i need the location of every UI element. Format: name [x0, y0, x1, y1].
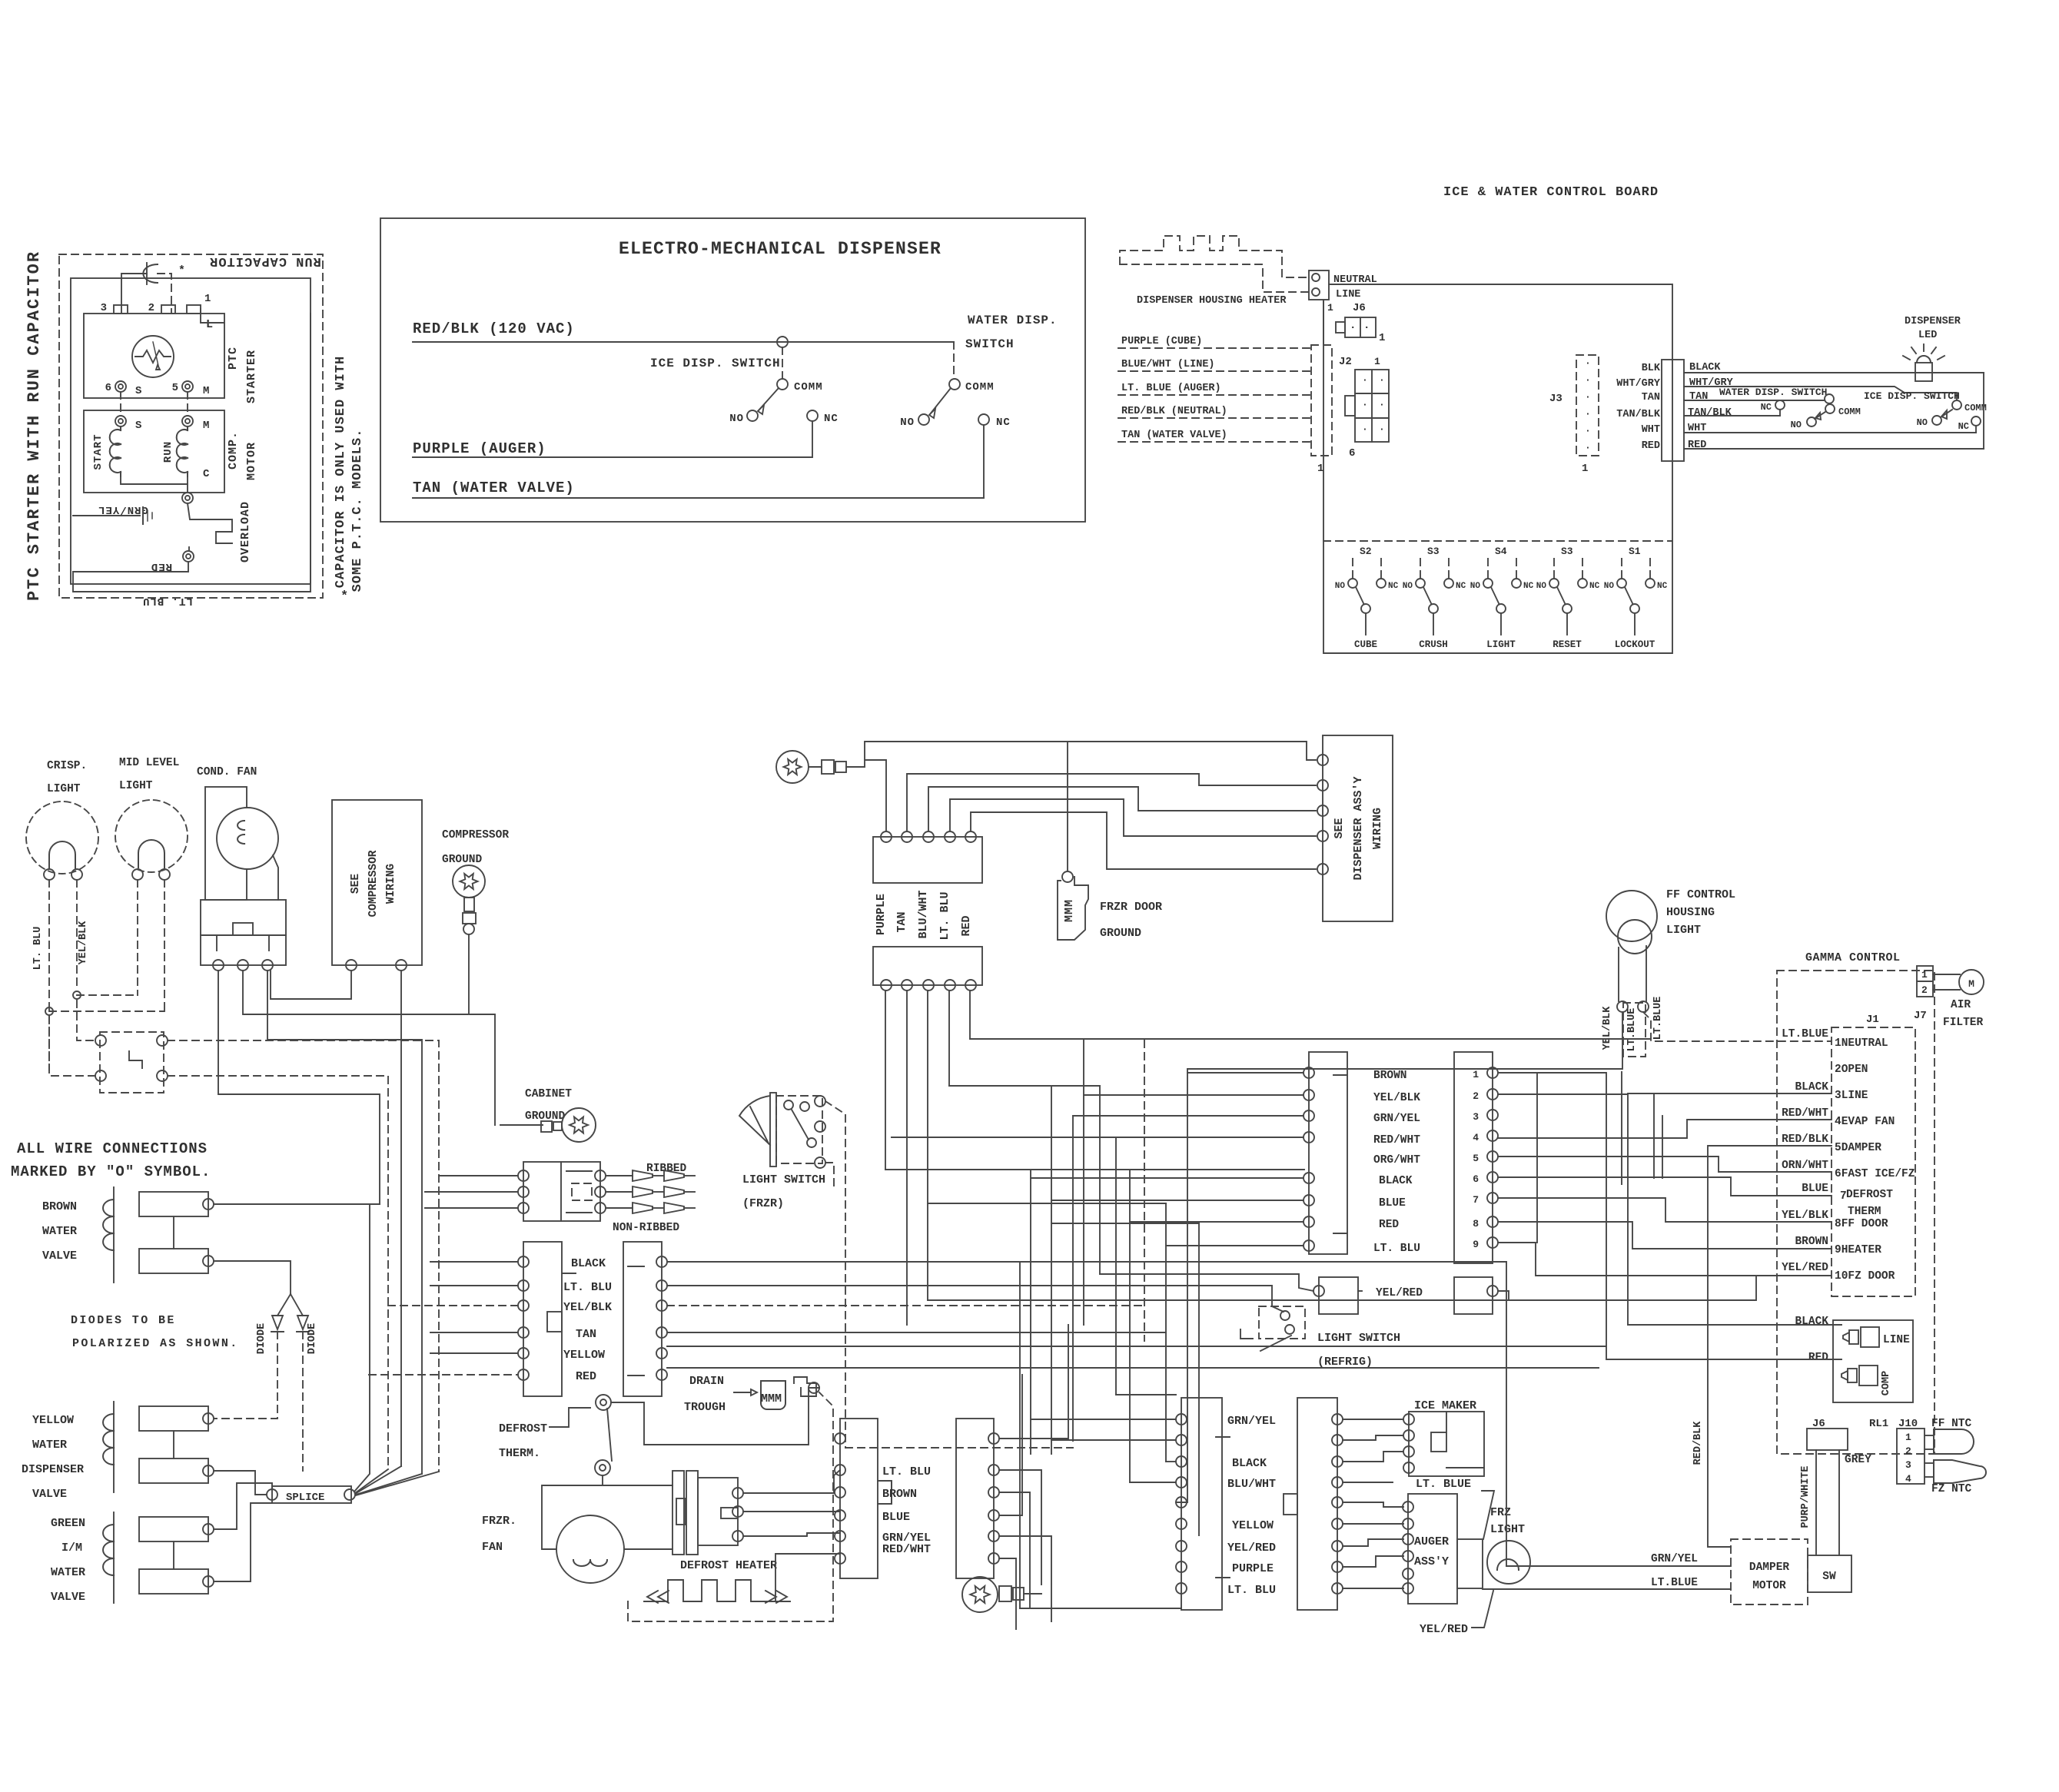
svg-text:HOUSING: HOUSING [1666, 906, 1715, 919]
svg-text:S: S [135, 385, 142, 397]
svg-text:WATER: WATER [32, 1439, 67, 1452]
wire splice fan 4 [356, 1474, 422, 1495]
6-wire connector pair (left) [523, 1242, 562, 1396]
svg-text:RL1: RL1 [1869, 1418, 1888, 1430]
wire BLACK row [667, 1261, 1506, 1263]
wire trunk vertical x1410 [1083, 1039, 1084, 1325]
svg-text:RED/BLK: RED/BLK [1782, 1133, 1828, 1146]
relay wire t3 [267, 971, 422, 1474]
svg-text:DIODE: DIODE [307, 1323, 318, 1355]
wire trunk vertical x1341 [1030, 1170, 1031, 1454]
svg-text:RED: RED [960, 915, 973, 936]
cond fan right wire [273, 855, 278, 900]
wire to ice maker pin 4 (LT. BLUE) [1343, 1482, 1393, 1483]
svg-text:BROWN: BROWN [882, 1488, 917, 1501]
wire black line row [1628, 1324, 1841, 1326]
svg-text:S3: S3 [1561, 546, 1573, 557]
wire YEL/BLK into left 6-pin connector (dashed) [388, 1305, 518, 1306]
YEL/RED connector row [1319, 1277, 1358, 1314]
SEE COMPRESSOR WIRING box [332, 800, 422, 965]
wire BLUE to 7DEFROST THERM [1498, 1177, 1832, 1196]
see-comp wire t2 [400, 971, 402, 1466]
svg-text:J7: J7 [1914, 1010, 1927, 1022]
SPLICE box [272, 1486, 351, 1503]
svg-text:DISPENSER: DISPENSER [1905, 316, 1961, 327]
compressor ground wire [469, 934, 495, 1125]
wire to ice maker pin 1 [1343, 1419, 1403, 1420]
wire purple auger [413, 456, 812, 458]
svg-text:NON-RIBBED: NON-RIBBED [613, 1222, 679, 1234]
svg-text:NC: NC [1523, 582, 1534, 591]
svg-text:WIRING: WIRING [1371, 808, 1384, 849]
drain trough lug [794, 1377, 816, 1396]
svg-text:CRISP.: CRISP. [47, 760, 87, 772]
light switch refrig symbol [1259, 1306, 1305, 1339]
lt blu bottom wire [73, 314, 311, 592]
wire BROWN into connector [1187, 1072, 1303, 1074]
wire BLACK into bottom connector [1166, 1461, 1176, 1462]
wire BLUE into connector [1051, 1200, 1303, 1201]
svg-text:FRZ: FRZ [1490, 1506, 1511, 1519]
heater arrows [647, 1591, 658, 1603]
svg-text:PURPLE: PURPLE [1232, 1562, 1274, 1575]
svg-text:PTC STARTER WITH RUN CAPACITOR: PTC STARTER WITH RUN CAPACITOR [25, 251, 44, 601]
svg-text:SPLICE: SPLICE [286, 1492, 324, 1504]
svg-text:ICE DISP. SWITCH: ICE DISP. SWITCH [1864, 390, 1960, 402]
svg-text:SOME P.T.C. MODELS.: SOME P.T.C. MODELS. [350, 429, 365, 592]
svg-text:NO: NO [1470, 582, 1481, 591]
wire into ribbed connector row 1 [439, 1175, 518, 1176]
svg-text:S2: S2 [1360, 546, 1372, 557]
wire TAN/BLK row [1684, 415, 1780, 416]
svg-text:*: * [178, 264, 186, 277]
svg-text:ICE MAKER: ICE MAKER [1414, 1399, 1476, 1412]
svg-text:PURPLE (AUGER): PURPLE (AUGER) [413, 440, 546, 457]
wire connector pin4 to dispenser assy [950, 799, 1316, 836]
svg-text:1: 1 [1327, 302, 1334, 314]
svg-text:BLACK: BLACK [571, 1257, 606, 1270]
svg-text:NO: NO [900, 416, 915, 429]
wire trunk vertical x1180 [906, 991, 908, 1325]
svg-text:CAPACITOR IS ONLY USED WITH: CAPACITOR IS ONLY USED WITH [334, 356, 348, 588]
PTC section outer dashed box [59, 254, 323, 598]
svg-text:RED: RED [151, 560, 172, 572]
wire BLACK into left 6-pin connector [430, 1261, 518, 1263]
wire trunk vertical x1545 [1187, 1069, 1188, 1502]
svg-text:ALL WIRE CONNECTIONS: ALL WIRE CONNECTIONS [17, 1140, 208, 1157]
wire BLU/WHT into bottom connector [1130, 1482, 1176, 1483]
wire GRN/YEL into bottom connector [1031, 1419, 1176, 1420]
wire TAN row to water switch [1684, 400, 1825, 401]
svg-text:7: 7 [1473, 1194, 1479, 1206]
wire red/blk 120vac [413, 341, 954, 343]
wire splice to brown valve trunk [354, 1204, 370, 1492]
svg-text:DISPENSER HOUSING HEATER: DISPENSER HOUSING HEATER [1137, 295, 1287, 307]
wire YEL/BLK from ff light [1187, 1012, 1622, 1069]
wire trunk vertical x1327 [1019, 1262, 1021, 1608]
wire TAN into left 6-pin connector [430, 1332, 518, 1333]
wire trunk vertical x1368 [1051, 1086, 1052, 1454]
svg-text:COMM: COMM [1838, 407, 1861, 417]
svg-text:3: 3 [1473, 1111, 1479, 1123]
wire connector to heater [775, 1554, 840, 1601]
svg-text:DEFROST: DEFROST [1846, 1189, 1893, 1201]
svg-text:THERM: THERM [1848, 1206, 1881, 1218]
wire YELLOW into left 6-pin connector [430, 1352, 518, 1354]
ground lug (dispenser) [776, 751, 809, 783]
svg-text:NC: NC [1456, 582, 1466, 591]
svg-text:RUN CAPACITOR: RUN CAPACITOR [209, 254, 321, 268]
svg-text:BROWN: BROWN [1373, 1070, 1407, 1082]
trunk vertical x2110b [1621, 1072, 1622, 1184]
svg-text:·: · [1362, 399, 1369, 410]
svg-text:LIGHT SWITCH: LIGHT SWITCH [742, 1173, 825, 1186]
wire to auger pin 3 [1343, 1539, 1403, 1546]
svg-text:·: · [1585, 408, 1592, 420]
cabinet ground lug [562, 1108, 596, 1142]
svg-text:LT. BLU: LT. BLU [1373, 1243, 1420, 1255]
wire splice fan 2 [355, 1469, 388, 1493]
LINE/COMP fuse box [1833, 1320, 1913, 1402]
svg-text:DEFROST: DEFROST [499, 1422, 547, 1435]
svg-text:LT. BLU: LT. BLU [563, 1281, 612, 1294]
see-comp wire t1 [271, 971, 351, 999]
svg-text:CABINET: CABINET [525, 1088, 572, 1100]
svg-text:LT. BLU: LT. BLU [882, 1465, 931, 1478]
svg-text:OVERLOAD: OVERLOAD [239, 501, 252, 562]
compressor ground lug [453, 865, 485, 898]
svg-text:YELLOW: YELLOW [1232, 1519, 1274, 1532]
svg-text:·: · [1585, 442, 1592, 453]
svg-text:NC: NC [1589, 582, 1600, 591]
svg-text:NO: NO [1604, 582, 1615, 591]
svg-text:BLU/WHT: BLU/WHT [917, 890, 930, 938]
svg-text:2: 2 [1905, 1445, 1912, 1457]
svg-text:WIRING: WIRING [385, 864, 397, 904]
ice disp switch NC [807, 410, 818, 421]
svg-text:PURPLE: PURPLE [875, 894, 888, 935]
water disp switch NO [918, 414, 929, 425]
svg-text:·: · [1362, 423, 1369, 435]
PTC starter box [84, 314, 224, 398]
svg-text:VALVE: VALVE [51, 1591, 85, 1604]
svg-text:RED/WHT: RED/WHT [882, 1543, 931, 1556]
svg-text:GRN/YEL: GRN/YEL [98, 503, 148, 516]
node on 120vac wire [777, 337, 788, 347]
svg-text:LT. BLUE: LT. BLUE [1416, 1478, 1471, 1491]
svg-text:LT. BLU: LT. BLU [32, 927, 44, 971]
switch wires right dashed [168, 1040, 439, 1472]
svg-text:LIGHT: LIGHT [119, 780, 153, 792]
crisper switch dashed box [100, 1032, 164, 1093]
svg-text:NC: NC [996, 416, 1011, 429]
wire trunk horizontal y1566 [928, 1203, 1166, 1204]
terminal C to overload [182, 493, 193, 503]
wire TAN row [667, 1332, 1166, 1333]
svg-text:GROUND: GROUND [442, 854, 483, 866]
svg-text:TAN (WATER VALVE): TAN (WATER VALVE) [1121, 430, 1227, 441]
wire RED into left 6-pin connector (dashed) [369, 1374, 518, 1376]
svg-text:YEL/BLK: YEL/BLK [1373, 1092, 1420, 1104]
svg-text:ICE & WATER CONTROL BOARD: ICE & WATER CONTROL BOARD [1443, 185, 1659, 200]
terminal tab 1 [187, 305, 201, 314]
left tall connector [1181, 1398, 1222, 1610]
svg-text:DEFROST HEATER: DEFROST HEATER [680, 1559, 777, 1572]
svg-text:TAN: TAN [576, 1328, 596, 1341]
leader line [750, 1107, 769, 1143]
svg-text:·: · [1379, 423, 1386, 435]
svg-text:YELLOW: YELLOW [32, 1414, 74, 1427]
wire connector pin1 up [865, 760, 886, 831]
svg-text:TAN (WATER VALVE): TAN (WATER VALVE) [413, 480, 575, 496]
svg-text:S3: S3 [1427, 546, 1440, 557]
svg-text:BLUE: BLUE [882, 1511, 910, 1524]
svg-text:DRAIN: DRAIN [689, 1375, 724, 1388]
svg-text:5: 5 [172, 382, 179, 394]
svg-text:TAN/BLK: TAN/BLK [1616, 409, 1661, 420]
wire ORN/WHT to 6FAST ICE/FZ [1498, 1157, 1832, 1172]
svg-text:FRZR.: FRZR. [482, 1515, 516, 1528]
board outline [1323, 284, 1672, 653]
svg-text:LT. BLU: LT. BLU [1227, 1584, 1276, 1597]
svg-text:LT. BLU: LT. BLU [938, 891, 951, 940]
wire to auger pin 2 [1343, 1523, 1403, 1525]
wire to yel/red box [1100, 1274, 1313, 1291]
svg-text:1: 1 [1379, 332, 1386, 344]
wire RED/WHT to 4EVAP FAN [1498, 1120, 1832, 1138]
svg-text:FILTER: FILTER [1943, 1017, 1984, 1029]
wire t1 to box [1068, 742, 1316, 760]
svg-text:LIGHT: LIGHT [1666, 924, 1701, 937]
svg-text:DIODE: DIODE [256, 1323, 267, 1355]
svg-text:4: 4 [1905, 1473, 1912, 1485]
svg-text:10FZ DOOR: 10FZ DOOR [1835, 1270, 1895, 1283]
wire green valve bottom [214, 1503, 272, 1581]
svg-text:GRN/YEL: GRN/YEL [1227, 1415, 1276, 1428]
svg-text:ICE DISP. SWITCH: ICE DISP. SWITCH [650, 357, 781, 370]
svg-text:·: · [1363, 322, 1370, 334]
svg-text:·: · [1350, 322, 1357, 334]
svg-text:SEE: SEE [350, 874, 362, 894]
svg-text:5DAMPER: 5DAMPER [1835, 1142, 1881, 1154]
assembly terminal wires [743, 1470, 840, 1493]
light switch frzr wires [825, 1101, 845, 1448]
svg-text:LT.BLUE: LT.BLUE [1782, 1028, 1828, 1040]
svg-text:DIODES TO BE: DIODES TO BE [71, 1314, 176, 1327]
svg-text:PURP/WHITE: PURP/WHITE [1800, 1465, 1812, 1528]
wire LT. BLU row [667, 1286, 1284, 1312]
svg-text:(REFRIG): (REFRIG) [1317, 1356, 1373, 1369]
wire trunk vertical x1431 [1099, 1086, 1101, 1274]
svg-text:4EVAP FAN: 4EVAP FAN [1835, 1116, 1895, 1128]
svg-text:WHT/GRY: WHT/GRY [1616, 378, 1661, 390]
svg-text:MID LEVEL: MID LEVEL [119, 757, 179, 769]
svg-text:AUGER: AUGER [1414, 1535, 1449, 1548]
svg-text:GROUND: GROUND [1100, 927, 1141, 940]
wire RED/WHT into connector [1116, 1137, 1260, 1138]
svg-text:S1: S1 [1629, 546, 1641, 557]
wire trunk vertical x1152 [885, 991, 886, 1170]
ice disp switch NO [747, 410, 758, 421]
svg-text:BLACK: BLACK [1689, 362, 1721, 373]
svg-text:COMPRESSOR: COMPRESSOR [367, 850, 380, 917]
wire into ribbed connector row 2 [425, 1191, 518, 1193]
svg-text:NO: NO [1791, 420, 1802, 430]
svg-text:·: · [1379, 374, 1386, 386]
svg-text:RED/WHT: RED/WHT [1782, 1107, 1828, 1120]
diode pair [277, 1294, 291, 1316]
svg-text:LIGHT: LIGHT [47, 783, 81, 795]
wire BLACK row [1684, 372, 1984, 373]
heater dashed enclosure [628, 1392, 833, 1621]
LIGHT SWITCH (FRZR) symbol [770, 1093, 776, 1166]
svg-text:FF CONTROL: FF CONTROL [1666, 888, 1735, 901]
svg-text:1: 1 [1473, 1069, 1479, 1080]
svg-text:COMP: COMP [1881, 1371, 1892, 1395]
svg-text:LT. BLU: LT. BLU [142, 595, 193, 607]
svg-text:AIR: AIR [1951, 999, 1971, 1011]
svg-text:·: · [1362, 374, 1369, 386]
wire YEL/BLK into connector [1084, 1094, 1303, 1096]
svg-text:2: 2 [148, 302, 155, 314]
svg-text:GREEN: GREEN [51, 1517, 85, 1530]
wire WHT/GRY row to ice switch COMM [1684, 387, 1957, 400]
frzr fan motor [556, 1515, 624, 1583]
dashed row [845, 1447, 1073, 1449]
board switch row separator [1323, 540, 1672, 542]
mid level light bulb [115, 800, 188, 872]
svg-text:YEL/BLK: YEL/BLK [563, 1301, 612, 1314]
svg-text:·: · [1585, 425, 1592, 436]
wire trunk vertical x1262 [969, 991, 971, 1039]
wire trunk vertical x1560 [1198, 1223, 1200, 1535]
ribbed/non-ribbed wire cones [606, 1175, 633, 1176]
svg-text:SEE: SEE [1333, 818, 1346, 838]
FRZR door ground bracket [1062, 871, 1073, 882]
wire trunk vertical x1489 (dashed) [1144, 1040, 1145, 1341]
wire bottom connector lower edge run [1020, 1608, 1181, 1609]
svg-text:NC: NC [1657, 582, 1668, 591]
svg-text:ORG/WHT: ORG/WHT [1373, 1154, 1420, 1166]
svg-text:PURPLE (CUBE): PURPLE (CUBE) [1121, 336, 1202, 347]
trunk vertical x2152 [1653, 1093, 1655, 1178]
ice disp switch (right) [1952, 400, 1961, 410]
wire to auger pin 4 [1343, 1556, 1403, 1567]
svg-text:·: · [1379, 399, 1386, 410]
svg-text:WATER: WATER [51, 1566, 85, 1579]
crisp light bulb [26, 801, 98, 874]
red wire [73, 562, 188, 572]
svg-text:STARTER: STARTER [245, 350, 258, 403]
terminal 6 (S) [115, 381, 126, 392]
svg-text:1: 1 [1905, 1432, 1912, 1443]
ice-maker side connector (mate) [956, 1419, 994, 1578]
cond fan motor circle [217, 808, 278, 869]
cond fan box [205, 787, 247, 900]
svg-text:ORN/WHT: ORN/WHT [1782, 1160, 1828, 1172]
wire YEL/RED to 10FZ DOOR [928, 1276, 1832, 1300]
board right edge connector [1662, 360, 1684, 461]
grn/yel ground stub [73, 515, 140, 516]
wire YELLOW row [667, 1346, 1606, 1347]
svg-text:YEL/BLK: YEL/BLK [78, 921, 89, 965]
svg-text:1NEUTRAL: 1NEUTRAL [1835, 1037, 1888, 1050]
svg-text:YEL/RED: YEL/RED [1782, 1262, 1828, 1274]
relay box [201, 900, 286, 965]
wire from bottom contact [603, 1475, 672, 1485]
svg-text:1: 1 [1374, 356, 1381, 367]
svg-text:COMP.: COMP. [227, 431, 240, 470]
svg-text:NC: NC [1761, 402, 1772, 413]
svg-text:WATER: WATER [42, 1225, 77, 1238]
green i/m water valve [139, 1517, 208, 1541]
DAMPER MOTOR box [1731, 1539, 1808, 1605]
svg-text:J1: J1 [1866, 1014, 1879, 1026]
svg-text:DISPENSER: DISPENSER [22, 1463, 84, 1476]
svg-text:GRN/YEL: GRN/YEL [1651, 1553, 1698, 1565]
svg-text:YEL/RED: YEL/RED [1376, 1287, 1423, 1299]
defrost thermostat contacts [596, 1395, 611, 1410]
svg-text:TAN: TAN [1642, 392, 1660, 403]
svg-text:YEL/RED: YEL/RED [1420, 1623, 1468, 1636]
wire trunk vertical x1396 [1072, 1116, 1074, 1441]
svg-text:NO: NO [729, 413, 744, 425]
wire trunk vertical x1452 [1115, 1138, 1117, 1395]
svg-text:BROWN: BROWN [1795, 1236, 1828, 1248]
wire connector pin3 to dispenser assy [928, 787, 1316, 831]
drain trough heater MMM [761, 1381, 785, 1409]
wire trunk vertical x1517 [1165, 1203, 1167, 1462]
wire BROWN to 9HEATER [1498, 1222, 1832, 1249]
motor terminals S,M [115, 416, 126, 426]
svg-text:LED: LED [1918, 330, 1937, 341]
J7 connector [1917, 966, 1933, 997]
wire splice fan 5 [356, 1472, 439, 1495]
GAMMA CONTROL box [1777, 971, 1934, 1454]
LT.BLU connector (left half) [840, 1419, 878, 1578]
svg-text:BLACK: BLACK [1795, 1081, 1828, 1093]
svg-text:RED: RED [1808, 1352, 1828, 1364]
svg-text:NC: NC [1958, 421, 1969, 432]
wire to auger pin 1 [1343, 1502, 1403, 1507]
svg-text:RED: RED [1379, 1219, 1399, 1231]
FF CONTROL HOUSING LIGHT bulb [1606, 891, 1657, 941]
svg-text:NC: NC [824, 413, 839, 425]
yellow water dispenser valve [139, 1406, 208, 1431]
auger right notch [1457, 1539, 1483, 1588]
svg-text:BLACK: BLACK [1379, 1175, 1413, 1187]
upper 5-pin connector [873, 837, 982, 883]
svg-text:FRZR DOOR: FRZR DOOR [1100, 901, 1162, 914]
svg-text:(FRZR): (FRZR) [742, 1197, 784, 1210]
wire green valve top [214, 1483, 272, 1529]
neutral/line connector [1309, 270, 1329, 300]
svg-text:1: 1 [1582, 463, 1589, 475]
PTC inner box [71, 278, 311, 584]
ice disp switch COMM [782, 347, 783, 379]
svg-text:L: L [206, 318, 214, 331]
svg-text:NO: NO [1403, 582, 1413, 591]
trunk vertical x2000 [1536, 1073, 1538, 1243]
svg-text:NC: NC [1388, 582, 1399, 591]
svg-text:MARKED BY "O" SYMBOL.: MARKED BY "O" SYMBOL. [11, 1163, 211, 1180]
svg-text:BLACK: BLACK [1795, 1316, 1828, 1328]
svg-text:DISPENSER ASS'Y: DISPENSER ASS'Y [1352, 776, 1365, 880]
wire into ribbed connector row 3 [425, 1207, 518, 1209]
wire from top contact [611, 1388, 819, 1445]
svg-text:NEUTRAL: NEUTRAL [1333, 274, 1377, 286]
ice maker box [1409, 1412, 1484, 1476]
